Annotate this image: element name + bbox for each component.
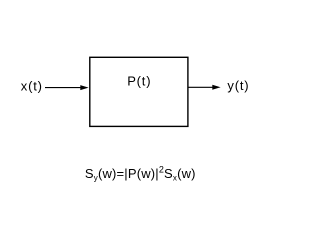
input wire [45, 87, 82, 89]
svg-text:y(t): y(t) [227, 78, 249, 93]
output wire [189, 86, 214, 88]
input arrowhead [80, 85, 88, 90]
svg-text:P(t): P(t) [127, 73, 151, 88]
svg-text:Sy(w)=|P(w)|2Sx(w): Sy(w)=|P(w)|2Sx(w) [85, 164, 196, 182]
output arrowhead [212, 85, 220, 90]
block P(t) [90, 57, 188, 126]
svg-text:x(t): x(t) [21, 79, 43, 94]
